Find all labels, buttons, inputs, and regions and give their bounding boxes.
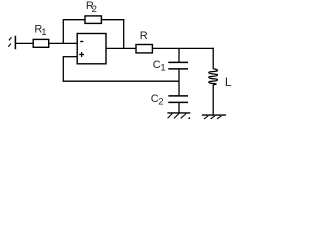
wire noninverting input — [63, 56, 77, 58]
stray dot mark — [188, 117, 190, 119]
svg-text:L: L — [225, 75, 232, 89]
svg-text:2: 2 — [92, 4, 97, 15]
wire C1 to node — [178, 70, 180, 82]
svg-text:R: R — [140, 30, 148, 42]
wire C2 to ground — [178, 103, 180, 113]
wire node to C2 — [178, 81, 180, 95]
wire tank to L — [212, 48, 214, 69]
wire op-amp output — [106, 47, 136, 49]
wire noninverting down — [62, 56, 64, 81]
wire R1 to op-amp inverting input — [49, 42, 77, 44]
op-amp minus pin mark — [80, 41, 83, 43]
resistor R — [136, 45, 152, 53]
svg-text:2: 2 — [158, 97, 163, 108]
svg-text:1: 1 — [160, 63, 165, 74]
chassis input symbol — [8, 36, 15, 49]
wire R2 right — [101, 19, 124, 21]
wire R2 down to output node — [123, 19, 125, 48]
wire bottom feedback to C1-C2 node — [63, 80, 179, 82]
wire to R2 left — [63, 19, 85, 21]
inductor L — [209, 69, 218, 85]
resistor R1 — [33, 39, 49, 47]
capacitor C1 — [168, 62, 188, 69]
wire R to tank — [152, 47, 213, 49]
op-amp U1 — [77, 34, 106, 64]
op-amp plus pin mark — [79, 52, 84, 57]
wire inverting node up to R2 — [62, 20, 64, 44]
wire down to C1 — [178, 48, 180, 62]
wire L to ground — [212, 85, 214, 115]
ground under C2 — [167, 113, 190, 118]
resistor R2 — [85, 16, 101, 24]
wire input to R1 — [15, 42, 33, 44]
svg-text:1: 1 — [41, 27, 46, 38]
ground under L — [202, 115, 226, 119]
capacitor C2 — [168, 96, 188, 103]
